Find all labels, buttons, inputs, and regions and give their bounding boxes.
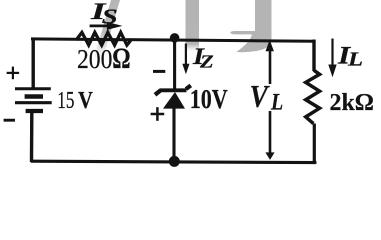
- svg-text:Ω: Ω: [112, 42, 130, 74]
- svg-text:15: 15: [57, 86, 74, 114]
- watermark J letter: [230, 0, 271, 52]
- load voltage VL arrow shaft upper: [269, 50, 272, 85]
- battery minus sign: [4, 119, 15, 122]
- wire middle lower: [172, 109, 175, 163]
- resistor R1 200ohm zigzag: [76, 32, 131, 45]
- zener plus sign: [151, 107, 165, 121]
- wire left upper: [32, 38, 35, 88]
- wire left lower: [30, 113, 34, 162]
- current IZ arrow: [182, 44, 189, 75]
- svg-text:V: V: [250, 81, 270, 115]
- svg-text:Z: Z: [199, 53, 214, 72]
- svg-text:10V: 10V: [190, 85, 228, 115]
- current IZ label: [192, 44, 214, 72]
- zener diode DZ triangle: [163, 92, 185, 109]
- watermark vertical bar: [186, 0, 200, 51]
- zener diode DZ cathode bar: [159, 88, 186, 92]
- wire middle upper: [173, 39, 176, 89]
- svg-text:L: L: [347, 48, 363, 70]
- battery label 15 V: [57, 86, 93, 114]
- zener diode DZ left bent tip: [155, 91, 160, 95]
- zener minus sign: [153, 70, 165, 73]
- battery E plate long top: [15, 87, 51, 90]
- current IS label: [90, 0, 118, 28]
- svg-text:L: L: [270, 88, 283, 115]
- svg-text:200: 200: [77, 43, 112, 74]
- wire right upper: [312, 40, 315, 72]
- load voltage VL arrow shaft lower: [269, 111, 272, 154]
- svg-text:V: V: [78, 86, 93, 113]
- battery E plate long bottom: [15, 101, 52, 104]
- resistor R1 label 200ohm: [77, 42, 131, 74]
- node A top junction dot: [170, 33, 180, 43]
- resistor RL 2kohm zigzag: [306, 70, 320, 123]
- zener diode DZ right bent tip: [186, 85, 191, 89]
- load voltage VL label: [250, 81, 284, 115]
- battery plus sign: [7, 67, 20, 80]
- watermark diagonal stripe: [94, 0, 120, 58]
- wire right lower: [313, 124, 316, 164]
- svg-text:2kΩ: 2kΩ: [330, 89, 374, 116]
- battery E plate short thick 2: [26, 109, 43, 113]
- node B bottom junction dot: [169, 156, 180, 167]
- load voltage VL arrow down head: [265, 152, 274, 160]
- load voltage VL arrow up head: [266, 40, 274, 52]
- battery E plate short thick 1: [25, 94, 43, 98]
- svg-text:S: S: [102, 6, 118, 28]
- current IS arrow: [90, 22, 123, 30]
- current IL label: [337, 42, 363, 70]
- current IL arrow: [328, 39, 336, 78]
- wire bottom: [31, 161, 317, 162]
- wire top: [31, 39, 316, 41]
